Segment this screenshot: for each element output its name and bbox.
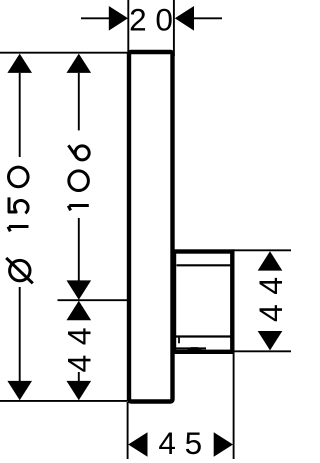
dim 106: bottom stem xyxy=(78,218,80,281)
bump on box bottom xyxy=(187,347,202,350)
dim 44 right: top extension line xyxy=(233,249,291,251)
char 5 of 150 xyxy=(9,197,28,213)
dim 20: left arrow xyxy=(109,6,128,31)
plate (escutcheon side view) xyxy=(129,52,173,402)
dim 45: right arrow xyxy=(214,432,233,457)
svg-text:4 5: 4 5 xyxy=(158,425,202,461)
dim 44 right: bottom extension line xyxy=(233,350,291,352)
dim Ø150: bottom stem xyxy=(19,287,21,381)
dim 106: top arrow xyxy=(67,54,92,73)
left mid extension line xyxy=(58,299,129,301)
dim 106: bottom arrow xyxy=(67,280,92,299)
dim 20: left stem xyxy=(81,17,109,19)
dim 45: left extension line xyxy=(127,402,129,459)
left top extension line xyxy=(0,52,128,54)
char 0 of 106 xyxy=(69,171,89,191)
dim 44 right: bottom arrow xyxy=(258,331,283,350)
dim 106: top stem xyxy=(78,73,80,130)
dim 106: text "106" drawn as rotated technical glyphs xyxy=(68,145,89,210)
dim 45: right extension line xyxy=(233,353,235,459)
dim 44 left: bottom stem xyxy=(78,372,80,381)
char Ø xyxy=(6,258,33,283)
char 1 of 106 xyxy=(68,206,89,211)
dim Ø150: bottom arrow xyxy=(7,381,32,400)
svg-text:4 4: 4 4 xyxy=(253,277,289,322)
dim Ø150: top stem xyxy=(19,73,21,157)
dim 45: left arrow xyxy=(128,432,147,457)
dim Ø150: top arrow xyxy=(7,54,32,73)
box inner top line xyxy=(177,264,231,266)
dim 20: right extension line xyxy=(173,0,175,56)
dim 44 right: top arrow xyxy=(258,251,283,270)
dim 20: right stem xyxy=(194,17,222,19)
left bottom extension line xyxy=(0,400,127,402)
dim 44 left: top arrow xyxy=(67,301,92,320)
char 0 of 150 xyxy=(9,167,29,187)
small step below inner bottom line xyxy=(178,337,180,343)
dim 44 left: bottom arrow xyxy=(67,381,92,400)
dim 20: left extension line xyxy=(127,0,129,56)
valve body box xyxy=(174,252,232,352)
char 1 of 150 xyxy=(8,227,29,232)
dim Ø150: text "Ø 150" drawn as rotated technical glyphs xyxy=(6,167,33,283)
char 6 of 106 xyxy=(68,145,89,160)
ledge line on box bottom xyxy=(175,347,207,349)
svg-text:4 4: 4 4 xyxy=(61,327,97,372)
box inner bottom line xyxy=(175,335,231,337)
svg-text:2 0: 2 0 xyxy=(129,2,173,38)
dim 20: right arrow xyxy=(175,6,194,31)
